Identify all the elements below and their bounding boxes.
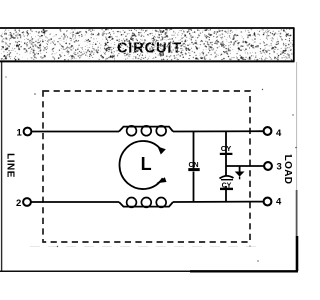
faint rule above bottom border: [30, 246, 258, 248]
choke L1 top winding: [119, 127, 173, 132]
banner box: [0, 28, 294, 62]
wire ground middle: [226, 165, 264, 167]
capacitor CY1 plate: [220, 153, 233, 155]
page frame right border (darkening downward): [296, 62, 298, 190]
choke L1 core circle with arrow: [120, 141, 163, 189]
title noise erosion: [116, 40, 182, 54]
terminal 4 circle (load top): [264, 127, 272, 135]
capacitor CY2 curved plate: [220, 176, 234, 179]
dashed enclosure box: [43, 91, 250, 242]
banner bottom border: [0, 60, 295, 62]
wire top right: [173, 130, 263, 132]
stray scan specks: [5, 76, 296, 261]
banner speckle texture: [0, 28, 293, 60]
terminal 1 circle: [24, 128, 32, 136]
svg-text:2: 2: [16, 198, 21, 209]
capacitor CY2 plate: [220, 188, 233, 190]
svg-text:CN: CN: [188, 162, 198, 169]
capacitor CN plate: [188, 168, 199, 171]
capacitor CY1 branch upper: [225, 132, 227, 154]
terminal 2 circle: [23, 198, 31, 206]
svg-text:LOAD: LOAD: [282, 155, 293, 185]
wire bottom left: [31, 201, 119, 203]
terminal 3 circle (ground, load mid): [264, 162, 272, 170]
banner top border: [0, 27, 295, 29]
choke L1 bottom winding: [119, 202, 173, 207]
wire top left: [32, 131, 119, 133]
svg-text:4: 4: [276, 197, 282, 208]
page frame bottom border: [0, 270, 298, 272]
svg-text:L: L: [141, 154, 152, 174]
wire bottom right: [173, 201, 263, 203]
capacitor CN vertical branch: [193, 132, 195, 169]
terminal 5 circle (load bottom): [264, 198, 272, 206]
svg-text:1: 1: [17, 127, 23, 138]
page frame left border: [1, 62, 3, 271]
svg-text:LINE: LINE: [4, 153, 15, 178]
svg-text:4: 4: [276, 128, 282, 139]
svg-text:3: 3: [277, 161, 282, 172]
svg-text:CIRCUIT: CIRCUIT: [117, 40, 182, 56]
banner right border: [293, 28, 295, 61]
svg-text:CY: CY: [221, 144, 231, 153]
chassis ground symbol: [239, 166, 241, 172]
